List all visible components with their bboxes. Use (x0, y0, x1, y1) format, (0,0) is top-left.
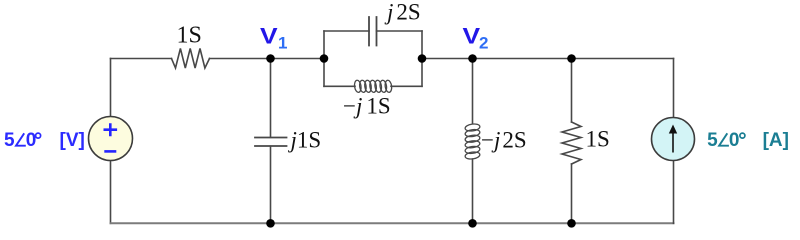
wire right column upper (top rail to current source) (673, 59, 675, 118)
svg-text:j2S: j2S (384, 0, 421, 24)
svg-text:2: 2 (479, 34, 488, 53)
svg-text:V: V (260, 24, 278, 48)
wire V1 column upper (node V1 down to capacitor) (270, 59, 272, 138)
svg-text:5: 5 (707, 130, 718, 151)
node bottom-V2 junction dot (468, 219, 477, 228)
svg-text:−j2S: −j2S (481, 127, 527, 152)
wire loop bottom branch right lead (391, 85, 422, 87)
svg-text:j1S: j1S (288, 128, 322, 153)
label 5&#8736;0&#176; [A] (current source value, teal) (707, 130, 789, 151)
svg-text:0: 0 (729, 130, 740, 151)
wire loop bottom branch left lead (324, 85, 355, 87)
node V2 junction dot (468, 54, 477, 63)
wire loop right vertical side (421, 31, 423, 86)
node bottom-1S junction dot (567, 219, 576, 228)
label 5&#8736;0&#176; [V] (voltage source value, blue) (4, 130, 85, 151)
resistor 1S (horizontal zigzag) (172, 49, 210, 69)
node 1S-top junction dot (567, 54, 576, 63)
current source circle body (652, 118, 695, 161)
inductor -j1S (horizontal coil) (354, 80, 393, 93)
svg-text:1: 1 (278, 34, 287, 53)
svg-text:−j1S: −j1S (343, 94, 391, 119)
voltage source plus sign (104, 123, 118, 136)
wire right column lower (current source to bottom rail) (673, 161, 675, 224)
svg-text:1S: 1S (177, 23, 202, 49)
resistor 1S (vertical zigzag) (562, 122, 581, 164)
wire resistor to node V1 and on to loop left node (210, 58, 325, 60)
capacitor j1S (horizontal plates) (255, 138, 287, 147)
wire loop right node to V2 to 1S column to top-right corner (422, 58, 674, 60)
wire V2 column lower (inductor to bottom rail) (472, 159, 474, 223)
svg-text:[A]: [A] (763, 130, 789, 151)
voltage source V1 circle body (89, 117, 133, 161)
wire left column upper (top rail down to voltage source) (110, 59, 112, 117)
wire V1 column lower (capacitor to bottom rail) (270, 146, 272, 223)
wire left column lower (voltage source to bottom rail) (110, 161, 112, 224)
wire V2 column upper (node V2 down to inductor) (472, 59, 474, 124)
voltage source minus sign (104, 150, 116, 153)
svg-text:1S: 1S (586, 127, 610, 152)
wire top-left horizontal from source column to resistor R (111, 58, 172, 60)
inductor -j2S (vertical coil) (465, 123, 481, 160)
current source arrow (672, 130, 674, 153)
node bottom-V1 junction dot (266, 219, 275, 228)
node loop-right junction dot (418, 54, 427, 63)
node V1 junction dot (266, 54, 275, 63)
wire loop left vertical side (323, 31, 325, 86)
wire loop top branch right lead (377, 30, 423, 32)
wire 1S column upper (top rail to resistor) (571, 59, 573, 123)
node loop-left junction dot (320, 54, 329, 63)
svg-text:5: 5 (4, 130, 15, 151)
capacitor j2S (vertical plates) (369, 17, 377, 46)
svg-text:[V]: [V] (60, 130, 85, 151)
svg-text:0: 0 (26, 130, 37, 151)
wire loop top branch left lead (324, 30, 369, 32)
wire bottom rail (111, 222, 674, 224)
wire 1S column lower (resistor to bottom rail) (571, 164, 573, 223)
